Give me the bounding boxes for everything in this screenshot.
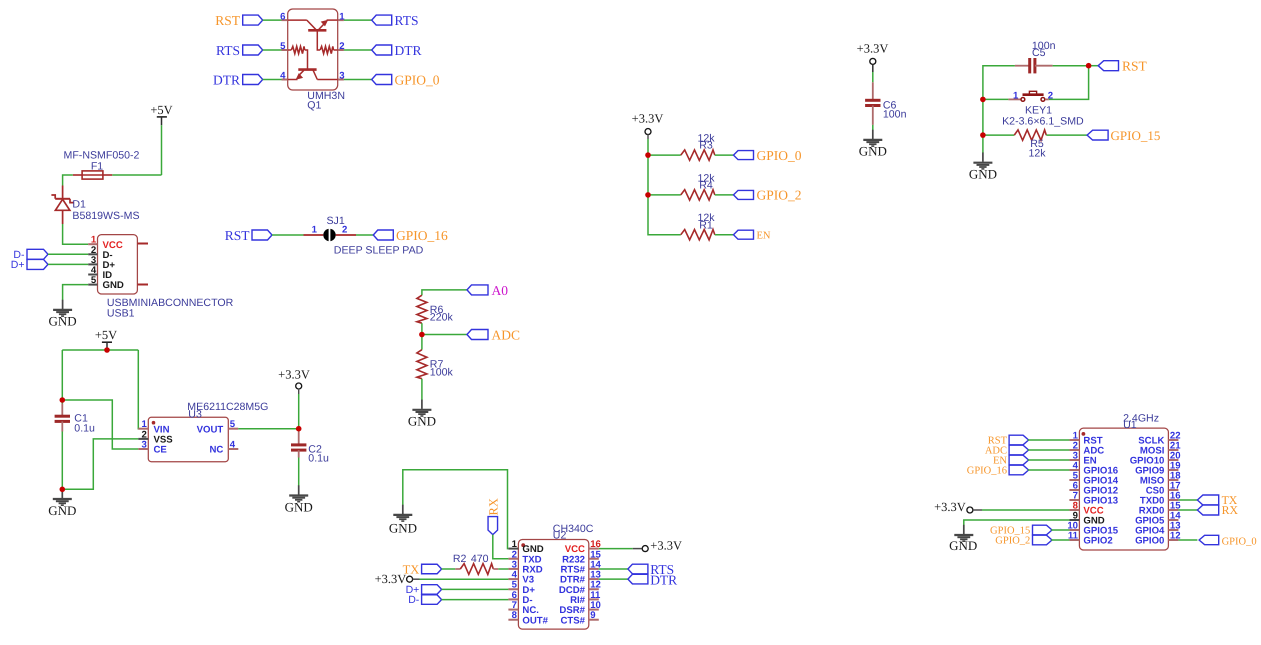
junction: [1086, 63, 1092, 69]
wire: [298, 429, 300, 432]
svg-text:R2: R2: [453, 553, 467, 565]
label GPIO_2: [734, 188, 802, 203]
pushbutton KEY1 K2-3.6x6.1_SMD: [1008, 91, 1053, 102]
svg-text:11: 11: [1068, 531, 1079, 542]
wire: [344, 79, 372, 81]
resistor R5 12k: [1014, 130, 1046, 140]
ground (C1): [48, 489, 76, 518]
label ADC (U1): [985, 445, 1029, 456]
U1 pin 10 GPIO15: [1067, 521, 1118, 537]
svg-text:GND: GND: [859, 144, 887, 159]
svg-text:4: 4: [230, 440, 236, 451]
junction: [296, 426, 302, 432]
R2 value 470: [471, 553, 489, 565]
module U1 2.4GHz body: [1079, 428, 1168, 550]
svg-text:+3.3V: +3.3V: [278, 368, 310, 382]
svg-text:GPIO_0: GPIO_0: [757, 148, 802, 163]
svg-text:6: 6: [280, 11, 285, 22]
power +3.3V (VOUT): [278, 368, 310, 395]
USB1 pin 4 ID: [88, 265, 112, 281]
R3 value 12k: [697, 133, 715, 145]
C1 value 0.1u: [74, 422, 95, 434]
U2 pin 11 RI#: [570, 590, 601, 606]
svg-text:470: 470: [471, 553, 489, 565]
wire: [356, 234, 373, 236]
svg-text:RTS: RTS: [216, 43, 240, 58]
wire: [498, 568, 508, 570]
svg-text:GPIO2: GPIO2: [1083, 536, 1112, 547]
resistor R2 470: [455, 564, 498, 575]
wire: [63, 175, 73, 186]
U3 pin 2 VSS: [138, 429, 173, 445]
svg-text:CTS#: CTS#: [560, 615, 585, 626]
svg-text:GND: GND: [103, 280, 124, 291]
SJ1 refdes: [326, 215, 344, 227]
U1 pin 13 GPIO4: [1135, 521, 1181, 537]
wire: [344, 49, 372, 51]
capacitor C1 0.1u: [55, 404, 70, 432]
svg-text:0.1u: 0.1u: [74, 422, 95, 434]
junction: [60, 487, 66, 493]
Q1 internal transistor (upper): [288, 20, 338, 50]
label RST (U1): [988, 435, 1029, 446]
F1 value MF-NSMF050-2: [64, 150, 140, 162]
U1 pin 18 MISO: [1140, 471, 1181, 487]
C2 refdes: [308, 444, 322, 456]
svg-text:1: 1: [312, 225, 318, 236]
wire: [983, 66, 1015, 153]
wire: [982, 509, 1069, 511]
power +3.3V (U1 VCC): [934, 500, 982, 514]
power +3.3V (U2 VCC): [633, 539, 682, 553]
svg-text:1: 1: [1013, 91, 1019, 102]
svg-text:GND: GND: [48, 503, 76, 518]
svg-text:GND: GND: [949, 538, 977, 553]
svg-text:NC: NC: [209, 445, 223, 456]
C5 value 100n: [1032, 40, 1056, 52]
Q1 internal transistor (lower): [288, 50, 338, 80]
USB1 pin 2 D-: [88, 245, 112, 261]
U1 pin 14 GPIO5: [1135, 511, 1181, 527]
power +5V (regulator): [95, 328, 117, 350]
R4 value 12k: [697, 172, 715, 184]
USB1 shield pin (top): [137, 243, 148, 245]
U2 pin 7 NC.: [508, 600, 539, 616]
wire: [263, 49, 282, 51]
wire: [62, 400, 138, 449]
power +3.3V (pull-ups): [632, 112, 664, 140]
svg-text:CE: CE: [154, 445, 168, 456]
U3 pin 1 VIN: [138, 419, 169, 435]
wire: [1051, 539, 1069, 541]
wire: [61, 432, 63, 490]
svg-text:+3.3V: +3.3V: [650, 539, 682, 553]
wire: [238, 428, 298, 430]
wire: [599, 578, 628, 580]
svg-text:K2-3.6×6.1_SMD: K2-3.6×6.1_SMD: [1002, 116, 1084, 128]
label DTR (Q1 output): [372, 43, 422, 58]
svg-text:+3.3V: +3.3V: [632, 112, 664, 126]
U1 pin 21 MOSI: [1140, 441, 1181, 457]
U3 value ME6211C28M5G: [187, 401, 268, 413]
label RX (vertical): [486, 498, 500, 534]
Q1 pin 4: [280, 71, 288, 82]
label GPIO_0: [734, 148, 802, 163]
U2 pin 6 D-: [508, 590, 532, 606]
U2 pin 5 D+: [508, 580, 535, 596]
junction: [980, 132, 986, 138]
U2 value CH340C: [553, 523, 594, 535]
wire: [138, 350, 148, 429]
junction: [419, 332, 425, 338]
U2 pin 14 RTS#: [560, 559, 601, 575]
label TX: [403, 562, 442, 576]
wire: [872, 72, 874, 82]
label EN: [734, 230, 771, 241]
svg-text:GPIO_0: GPIO_0: [1222, 536, 1257, 547]
U1 pin 15 RXD0: [1139, 501, 1181, 517]
wire: [1028, 449, 1070, 451]
U3 refdes: [188, 409, 202, 421]
Q1 internal base resistor (upper): [320, 46, 333, 53]
U1 pin 5 GPIO14: [1069, 471, 1118, 487]
svg-text:GPIO_16: GPIO_16: [967, 466, 1007, 477]
wire: [1051, 529, 1069, 531]
svg-text:100n: 100n: [883, 109, 907, 121]
U1 pin 1 RST: [1069, 431, 1102, 447]
capacitor C2 0.1u: [291, 432, 306, 458]
Q1 pin 6: [280, 11, 288, 22]
F1 refdes: [91, 161, 103, 173]
svg-text:5: 5: [91, 275, 97, 286]
wire: [715, 234, 734, 236]
wire: [1028, 469, 1070, 471]
wire: [983, 134, 1014, 136]
R4 refdes: [699, 180, 713, 192]
svg-text:9: 9: [590, 610, 595, 621]
wire: [964, 520, 1070, 525]
svg-text:220k: 220k: [430, 312, 454, 324]
wire: [442, 599, 509, 601]
solder jumper SJ1: [304, 225, 357, 242]
U2 pin 12 DCD#: [559, 580, 601, 596]
junction: [980, 97, 986, 103]
capacitor C5 100n: [1015, 58, 1053, 73]
junction: [645, 152, 651, 158]
wire: [421, 323, 423, 334]
U2 refdes: [553, 529, 567, 541]
label RST (input to Q1): [215, 13, 262, 28]
transistor Q1 UMH3N body: [288, 9, 338, 90]
svg-text:GND: GND: [285, 499, 313, 514]
Q1 name UMH3N: [307, 90, 345, 102]
wire: [715, 154, 734, 156]
svg-text:3: 3: [141, 440, 146, 451]
wire: [403, 470, 509, 549]
U2 pin-1 mark: [521, 543, 525, 547]
ground (U1): [949, 525, 977, 553]
wire: [1049, 66, 1089, 100]
label GPIO_16 (U1): [967, 465, 1029, 476]
svg-text:B5819WS-MS: B5819WS-MS: [72, 210, 139, 222]
wire: [263, 19, 282, 21]
svg-text:8: 8: [512, 610, 518, 621]
Q1 internal base resistor (lower): [288, 49, 292, 51]
wire: [1028, 439, 1070, 441]
diode D1 B5819WS-MS (schottky): [51, 186, 73, 225]
svg-text:+5V: +5V: [150, 103, 172, 117]
U2 pin 15 R232: [562, 549, 601, 565]
svg-text:GND: GND: [49, 314, 77, 329]
resistor R3 12k: [681, 150, 715, 160]
U1 pin 20 GPIO10: [1130, 451, 1181, 467]
svg-text:GPIO_2: GPIO_2: [995, 536, 1030, 547]
R1 value 12k: [697, 212, 715, 224]
wire: [872, 125, 874, 130]
svg-text:VOUT: VOUT: [197, 424, 224, 435]
resistor R1 12k: [681, 230, 715, 240]
U2 pin 13 DTR#: [560, 570, 601, 586]
label D+ (U2): [406, 584, 442, 596]
R2 refdes: [453, 553, 467, 565]
label RX (U1): [1197, 503, 1238, 517]
wire: [715, 194, 734, 196]
U1 pin 11 GPIO2: [1068, 531, 1113, 547]
U1 pin-1 mark: [1082, 432, 1086, 436]
wire: [599, 568, 628, 570]
U2 pin 1 GND: [508, 539, 543, 555]
regulator U3 ME6211C28M5G body: [148, 417, 228, 461]
wire: [1053, 65, 1089, 67]
wire: [112, 174, 161, 176]
svg-text:ADC: ADC: [492, 328, 521, 343]
U1 pin 6 GPIO12: [1069, 481, 1118, 497]
svg-text:0.1u: 0.1u: [308, 452, 329, 464]
U3 pin 3 CE: [138, 440, 167, 456]
Q1 pin 2: [338, 41, 345, 52]
svg-text:R4: R4: [699, 180, 713, 192]
KEY1 refdes: [1025, 105, 1052, 117]
svg-text:GPIO_0: GPIO_0: [395, 73, 440, 88]
IC U2 CH340C body: [518, 540, 588, 630]
label A0: [467, 283, 508, 298]
D1 refdes: [72, 199, 86, 211]
svg-text:EN: EN: [757, 231, 771, 242]
svg-text:GND: GND: [969, 167, 997, 182]
label RST (reset key): [1098, 59, 1147, 74]
C2 value 0.1u: [308, 452, 329, 464]
wire: [599, 548, 633, 550]
wire: [263, 79, 282, 81]
svg-text:RX: RX: [1222, 503, 1239, 517]
label EN (U1): [993, 455, 1029, 466]
U1 pin 9 GND: [1069, 511, 1104, 527]
U1 pin 3 EN: [1069, 451, 1096, 467]
svg-text:A0: A0: [492, 283, 509, 298]
wire: [1046, 134, 1087, 136]
label GPIO_15 (U1): [990, 525, 1052, 536]
USB1 pin 3 D+: [88, 255, 115, 271]
R1 refdes: [699, 219, 713, 231]
svg-text:DTR: DTR: [395, 43, 422, 58]
USB1 shield pin (bottom): [137, 284, 148, 286]
D1 value B5819WS-MS: [72, 210, 139, 222]
R6 refdes: [430, 304, 444, 316]
svg-text:4: 4: [280, 71, 286, 82]
svg-text:RST: RST: [1122, 59, 1148, 74]
U1 pin 16 TXD0: [1140, 491, 1181, 507]
R7 refdes: [430, 359, 444, 371]
fuse F1 MF-NSMF050-2: [73, 171, 112, 179]
Q1 pin 3: [338, 71, 345, 82]
U2 pin 10 DSR#: [559, 600, 600, 616]
U1 pin 8 VCC: [1069, 501, 1103, 517]
svg-text:DTR: DTR: [213, 73, 240, 88]
wire: [421, 379, 423, 400]
wire: [61, 350, 63, 400]
svg-text:U3: U3: [188, 409, 202, 421]
wire: [422, 334, 467, 336]
svg-text:GND: GND: [389, 521, 417, 536]
wire: [1089, 65, 1099, 67]
svg-text:+3.3V: +3.3V: [934, 500, 966, 514]
C6 refdes: [883, 100, 897, 112]
wire: [344, 19, 372, 21]
svg-text:GPIO_16: GPIO_16: [396, 228, 448, 243]
svg-text:2: 2: [1048, 91, 1053, 102]
label GPIO_15 (key): [1087, 128, 1160, 143]
label D-: [13, 249, 48, 261]
junction: [0, 0, 1, 1]
wire: [161, 125, 163, 175]
U1 value 2.4GHz: [1123, 413, 1159, 425]
R5 value 12k: [1028, 147, 1046, 159]
svg-text:+3.3V: +3.3V: [375, 572, 407, 586]
svg-text:D-: D-: [408, 594, 420, 606]
wire: [1178, 539, 1197, 541]
C5 refdes: [1032, 47, 1046, 59]
label D+: [11, 259, 48, 271]
wire: [1178, 509, 1197, 511]
power +3.3V (V3): [375, 572, 420, 586]
SJ1 value DEEP SLEEP PAD: [334, 245, 424, 257]
wire: [648, 154, 681, 156]
U2 pin 9 CTS#: [560, 610, 598, 626]
svg-text:U2: U2: [553, 529, 567, 541]
svg-text:GND: GND: [408, 413, 436, 428]
svg-text:5: 5: [230, 419, 236, 430]
label GPIO_16: [373, 228, 448, 243]
label DTR (input to Q1): [213, 73, 263, 88]
U1 pin 12 GPIO0: [1135, 531, 1181, 547]
U3 pin 5 VOUT: [197, 419, 239, 435]
wire: [648, 139, 681, 235]
wire: [48, 253, 88, 255]
wire: [298, 458, 300, 486]
svg-text:GPIO0: GPIO0: [1135, 536, 1164, 547]
resistor R6 220k: [417, 295, 427, 323]
USB1 refdes: [107, 308, 135, 320]
U1 pin 2 ADC: [1069, 441, 1104, 457]
U3 pin-1 mark: [152, 421, 156, 425]
Q1 pin 1: [338, 11, 346, 22]
wire: [63, 285, 89, 301]
wire: [420, 578, 509, 580]
junction: [60, 397, 66, 403]
wire: [442, 568, 456, 570]
KEY1 value K2-3.6x6.1_SMD: [1002, 116, 1084, 128]
svg-text:RST: RST: [215, 13, 241, 28]
svg-text:3: 3: [339, 71, 344, 82]
ground (C6): [859, 130, 887, 159]
svg-text:U1: U1: [1123, 419, 1137, 431]
svg-text:D+: D+: [11, 259, 25, 271]
R5 refdes: [1030, 138, 1044, 150]
svg-text:Q1: Q1: [307, 100, 321, 112]
ground (USB1): [49, 300, 77, 329]
USB1 pin 5 GND: [88, 275, 124, 291]
Q1 refdes Q1: [307, 100, 321, 112]
label GPIO_0 (Q1 output): [372, 73, 440, 88]
C6 value 100n: [883, 109, 907, 121]
wire: [1178, 499, 1197, 501]
U1 pin 22 SCLK: [1138, 431, 1180, 447]
label DTR (U2): [628, 572, 677, 587]
junction: [104, 347, 110, 353]
power +5V (USB): [150, 103, 172, 125]
U1 pin 4 GPIO16: [1069, 461, 1118, 477]
connector USB1 body: [98, 235, 138, 294]
wire: [61, 400, 63, 404]
svg-text:R1: R1: [699, 219, 713, 231]
wire: [422, 290, 467, 295]
wire: [983, 98, 1009, 100]
U2 pin 3 RXD: [508, 559, 542, 575]
ground (KEY1): [969, 153, 997, 182]
U1 pin 7 GPIO13: [1069, 491, 1118, 507]
Q1 pin 5: [280, 41, 288, 52]
wire: [421, 335, 423, 350]
ground (U2): [389, 505, 417, 536]
U1 pin 17 CS0: [1146, 481, 1181, 497]
wire: [1028, 459, 1070, 461]
svg-text:+3.3V: +3.3V: [857, 41, 889, 55]
label RTS (input to Q1): [216, 43, 263, 58]
wire: [442, 588, 509, 590]
svg-text:DEEP SLEEP PAD: DEEP SLEEP PAD: [334, 245, 424, 257]
R3 refdes: [699, 140, 713, 152]
resistor R4 12k: [681, 190, 715, 200]
USB1 value USBMINIABCONNECTOR: [107, 297, 234, 309]
svg-text:100k: 100k: [430, 367, 454, 379]
label GPIO_2 (U1): [995, 535, 1052, 546]
label GPIO_0 (U1): [1199, 535, 1257, 547]
label D- (U2): [408, 594, 441, 606]
label ADC: [467, 328, 520, 343]
junction: [645, 192, 651, 198]
U2 pin 4 V3: [508, 570, 534, 586]
R7 value 100k: [430, 367, 454, 379]
svg-text:C5: C5: [1032, 47, 1046, 59]
wire: [493, 535, 509, 559]
power +3.3V (C6): [857, 41, 889, 72]
svg-text:GPIO_15: GPIO_15: [1111, 128, 1161, 143]
label TX (U1): [1197, 493, 1237, 507]
wire: [272, 234, 304, 236]
C1 refdes: [74, 413, 88, 425]
label RTS (Q1 output): [372, 13, 419, 28]
svg-text:SJ1: SJ1: [326, 215, 344, 227]
